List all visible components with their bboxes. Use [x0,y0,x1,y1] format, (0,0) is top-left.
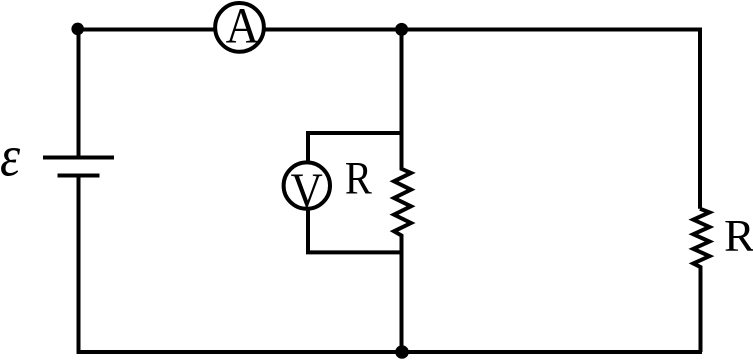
svg-text:V: V [291,164,323,219]
svg-text:R: R [724,210,753,261]
svg-text:ε: ε [0,123,21,188]
svg-text:R: R [345,153,373,204]
svg-text:A: A [226,0,260,54]
